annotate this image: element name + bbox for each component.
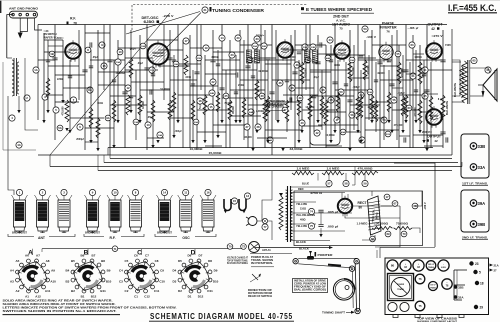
svg-text:C12: C12 xyxy=(144,295,150,299)
svg-text:59: 59 xyxy=(363,182,367,186)
coil L11 xyxy=(180,200,192,227)
svg-text:3300Ω: 3300Ω xyxy=(211,56,218,59)
wire black arrow xyxy=(255,247,330,249)
svg-text:6J8G: 6J8G xyxy=(441,267,446,269)
svg-text:=270 V: =270 V xyxy=(432,34,443,38)
svg-text:31: 31 xyxy=(295,63,299,67)
svg-text:70,000: 70,000 xyxy=(224,102,232,105)
ground arrows main xyxy=(42,120,45,123)
svg-text:27: 27 xyxy=(494,269,498,273)
line cord wires xyxy=(262,171,272,214)
shield line xyxy=(2,62,4,150)
chassis tube 6j8g xyxy=(438,260,449,271)
svg-text:D6: D6 xyxy=(188,253,192,257)
svg-text:BROADCAST: BROADCAST xyxy=(85,232,101,235)
svg-text:AVC=: AVC= xyxy=(56,36,64,40)
wire bus to IF cans xyxy=(461,162,463,167)
svg-text:12: 12 xyxy=(126,86,130,90)
svg-text:.005 μf: .005 μf xyxy=(327,210,338,214)
svg-text:.05μf: .05μf xyxy=(92,56,98,59)
wire lower long bus xyxy=(108,147,433,149)
tuning gang diagonal 1 xyxy=(50,13,170,155)
svg-text:51,000Ω: 51,000Ω xyxy=(160,88,169,91)
power plug note xyxy=(249,242,260,253)
svg-text:11: 11 xyxy=(184,191,187,195)
pulley right second xyxy=(349,266,354,271)
svg-text:470,000: 470,000 xyxy=(401,68,404,78)
svg-text:13: 13 xyxy=(146,123,150,127)
svg-text:A5: A5 xyxy=(15,259,19,263)
svg-text:IN POSITION.: IN POSITION. xyxy=(251,262,273,265)
chassis 2nd if trans xyxy=(426,261,436,271)
cord wound segment xyxy=(328,265,341,266)
capacitor bank 2 xyxy=(46,59,50,61)
svg-text:POINTER: POINTER xyxy=(318,253,334,257)
svg-text:33B: 33B xyxy=(478,144,486,149)
chassis tube 75 xyxy=(415,301,425,311)
svg-text:D4: D4 xyxy=(172,269,176,273)
resistor R59 470000 xyxy=(352,171,378,175)
svg-text:μf: μf xyxy=(416,26,419,30)
svg-text:13: 13 xyxy=(246,194,250,198)
svg-text:740V: 740V xyxy=(445,43,451,47)
svg-text:25: 25 xyxy=(224,94,228,98)
svg-text:23: 23 xyxy=(230,53,234,57)
tuning drum xyxy=(333,279,354,300)
svg-text:R.F.: R.F. xyxy=(109,236,115,240)
svg-text:14: 14 xyxy=(220,36,224,40)
power transformer T1 xyxy=(287,186,289,242)
svg-text:A11: A11 xyxy=(45,289,51,293)
svg-text:1A: 1A xyxy=(34,68,38,72)
svg-text:76: 76 xyxy=(386,30,390,34)
svg-text:16: 16 xyxy=(206,191,210,195)
cap 75 .005uf xyxy=(308,223,314,229)
resistor row 2 xyxy=(372,226,392,229)
svg-text:78: 78 xyxy=(73,22,77,26)
svg-text:B7: B7 xyxy=(92,253,96,257)
wire horizontal links 2 xyxy=(44,51,70,53)
node 58 xyxy=(343,180,349,186)
svg-text:6J8G: 6J8G xyxy=(144,20,155,24)
svg-text:80: 80 xyxy=(391,264,395,268)
node 70b xyxy=(401,231,407,237)
svg-text:YELLOW: YELLOW xyxy=(296,202,308,206)
node 64 xyxy=(485,67,491,73)
resistor bank 2 xyxy=(46,78,50,98)
svg-text:32A: 32A xyxy=(458,296,464,300)
svg-text:30: 30 xyxy=(260,94,264,98)
part circles 2 xyxy=(49,51,55,57)
wire horizontal links xyxy=(44,39,63,41)
svg-text:470,000: 470,000 xyxy=(394,124,403,127)
svg-text:B3: B3 xyxy=(66,280,70,284)
svg-text:20A: 20A xyxy=(194,121,198,124)
svg-text:10: 10 xyxy=(118,50,122,54)
coil L8 xyxy=(130,200,142,227)
svg-text:12A: 12A xyxy=(141,45,145,48)
svg-text:28: 28 xyxy=(256,125,260,129)
svg-text:10A: 10A xyxy=(116,61,120,64)
wire ant feed xyxy=(7,57,12,59)
tube V6 output 42 xyxy=(427,44,440,57)
svg-text:SCHEMATIC DIAGRAM MODEL 40-755: SCHEMATIC DIAGRAM MODEL 40-755 xyxy=(150,312,293,321)
svg-text:15: 15 xyxy=(233,199,237,203)
coil L16 xyxy=(202,200,214,227)
svg-text:INSTALLATION OF DRIVE: INSTALLATION OF DRIVE xyxy=(294,280,326,283)
svg-text:75,000Ω: 75,000Ω xyxy=(396,223,408,226)
svg-text:39B: 39B xyxy=(478,222,486,227)
wire top bus drop left xyxy=(37,25,39,121)
svg-text:C9: C9 xyxy=(160,268,164,272)
pulley left xyxy=(293,259,298,264)
svg-text:YELLOW: YELLOW xyxy=(296,224,308,228)
svg-text:490Ω: 490Ω xyxy=(334,64,340,67)
svg-text:R.F.: R.F. xyxy=(70,17,76,21)
svg-text:SWITCHES SHOWN IN POSITION No.: SWITCHES SHOWN IN POSITION No.1 BROADCAS… xyxy=(3,309,117,313)
svg-text:33,000Ω: 33,000Ω xyxy=(290,148,303,151)
node 67 xyxy=(392,201,398,207)
svg-text:A10: A10 xyxy=(50,279,56,283)
svg-text:44A: 44A xyxy=(326,57,330,60)
wire field top xyxy=(371,191,373,196)
wire bus B1 xyxy=(110,158,452,160)
svg-text:.09μf: .09μf xyxy=(137,62,143,65)
svg-text:TUNING CONDENSER: TUNING CONDENSER xyxy=(212,8,265,13)
svg-text:10: 10 xyxy=(113,191,117,195)
svg-text:POWER: POWER xyxy=(397,284,405,286)
svg-text:C1: C1 xyxy=(134,295,138,299)
svg-text:5A: 5A xyxy=(58,126,62,130)
svg-text:57A: 57A xyxy=(386,133,390,136)
svg-text:ANT: ANT xyxy=(38,236,46,240)
svg-text:4/8Ω: 4/8Ω xyxy=(300,219,305,222)
svg-text:55: 55 xyxy=(396,52,400,56)
wire caps drop xyxy=(320,213,322,224)
speaker wires xyxy=(470,68,490,73)
dot 32A xyxy=(454,295,458,299)
wire chassis link xyxy=(380,247,435,249)
svg-text:A8: A8 xyxy=(46,259,50,263)
svg-text:63: 63 xyxy=(410,43,414,47)
padder coil 15 xyxy=(224,199,231,211)
svg-text:A2: A2 xyxy=(16,289,20,293)
dot 32B xyxy=(454,285,458,289)
svg-text:75: 75 xyxy=(339,27,343,31)
wire wafer link xyxy=(42,248,243,250)
rect wires xyxy=(341,193,343,200)
drive cord top xyxy=(298,257,356,259)
tube V7 output 42 lower xyxy=(427,110,440,123)
coil L2 xyxy=(37,200,49,227)
svg-text:30A: 30A xyxy=(303,46,307,49)
legend underline xyxy=(3,314,121,316)
svg-text:3,000Ω: 3,000Ω xyxy=(256,110,264,113)
coil L3 xyxy=(58,200,70,227)
svg-text:150,000Ω: 150,000Ω xyxy=(374,223,388,226)
svg-text:10,000: 10,000 xyxy=(142,101,145,109)
svg-text:21A: 21A xyxy=(494,264,499,268)
svg-text:B11: B11 xyxy=(100,289,106,293)
svg-text:23: 23 xyxy=(475,262,479,266)
svg-text:.015μf: .015μf xyxy=(398,92,405,95)
svg-text:77: 77 xyxy=(263,225,267,229)
svg-text:33,000: 33,000 xyxy=(244,136,252,139)
svg-text:10,000Ω: 10,000Ω xyxy=(325,134,334,137)
svg-text:99,000: 99,000 xyxy=(232,106,235,114)
svg-text:.004μf: .004μf xyxy=(175,130,182,133)
wire top bus xyxy=(38,24,447,26)
tube V2 DET-OSC 6J8G xyxy=(149,45,168,64)
svg-text:36: 36 xyxy=(278,81,282,85)
node 21 tuning condenser xyxy=(202,7,208,13)
speaker cone xyxy=(483,69,497,101)
wire bus B2 xyxy=(104,162,458,164)
svg-text:B10: B10 xyxy=(106,279,112,283)
svg-text:4A: 4A xyxy=(17,143,21,147)
svg-text:250Ω: 250Ω xyxy=(238,84,244,87)
svg-text:BLK-WHITE: BLK-WHITE xyxy=(454,83,457,97)
bracket OSC xyxy=(155,234,177,237)
svg-text:60: 60 xyxy=(407,106,411,110)
svg-text:C8: C8 xyxy=(155,259,159,263)
svg-text:37: 37 xyxy=(283,108,287,112)
svg-text:BROADCAST: BROADCAST xyxy=(12,232,28,235)
field coil xyxy=(368,196,382,235)
resistor R58 1.0 MEG xyxy=(322,171,344,175)
svg-text:4750 Ω: 4750 Ω xyxy=(310,191,322,195)
resistor R57 1.0 MEG xyxy=(292,171,314,175)
svg-text:26B: 26B xyxy=(262,46,266,48)
svg-text:470,000: 470,000 xyxy=(414,107,417,117)
svg-text:1ST I.F: 1ST I.F xyxy=(430,285,435,287)
svg-text:74: 74 xyxy=(310,210,314,214)
right low wires xyxy=(375,206,400,247)
svg-text:1ST I.F. TRANS.: 1ST I.F. TRANS. xyxy=(462,182,488,186)
wire phono lead xyxy=(35,18,42,30)
rect tube circle RECT 80 xyxy=(339,200,351,212)
svg-text:B6: B6 xyxy=(81,253,85,257)
capacitor bank h xyxy=(89,42,91,47)
chassis feet xyxy=(393,315,398,318)
svg-text:TOP OF POWER TRANS.: TOP OF POWER TRANS. xyxy=(227,259,248,262)
svg-text:5: 5 xyxy=(479,271,481,275)
chassis socket a xyxy=(388,302,397,311)
svg-text:30B: 30B xyxy=(311,47,315,49)
svg-text:C4: C4 xyxy=(119,269,123,273)
ground arrows 2 xyxy=(46,110,49,113)
svg-text:D7: D7 xyxy=(199,253,203,257)
svg-text:17: 17 xyxy=(385,195,389,199)
IF transformer 1 xyxy=(247,50,252,63)
output transformer T2 xyxy=(467,60,469,104)
chassis tube 76 xyxy=(415,274,425,284)
svg-text:51: 51 xyxy=(350,113,354,117)
svg-text:18A: 18A xyxy=(174,63,178,66)
svg-text:C10: C10 xyxy=(159,279,165,283)
chassis box xyxy=(385,258,489,315)
pulley bottom xyxy=(355,308,360,313)
svg-text:D2: D2 xyxy=(178,289,182,293)
svg-text:33: 33 xyxy=(255,37,259,41)
svg-text:B4: B4 xyxy=(65,269,69,273)
svg-text:470,000Ω: 470,000Ω xyxy=(358,167,374,171)
svg-text:A9: A9 xyxy=(51,268,55,272)
svg-text:A4: A4 xyxy=(10,269,14,273)
svg-text:A7: A7 xyxy=(36,253,40,257)
svg-text:C5: C5 xyxy=(124,259,128,263)
svg-text:58: 58 xyxy=(344,182,348,186)
node 17b xyxy=(384,194,390,200)
svg-text:1.0 MEG: 1.0 MEG xyxy=(297,167,310,171)
svg-text:TOP VIEW OF CHASSIS: TOP VIEW OF CHASSIS xyxy=(417,318,457,321)
svg-text:DIAL (BARE CORDS): DIAL (BARE CORDS) xyxy=(294,288,326,291)
svg-text:56: 56 xyxy=(392,98,396,102)
node 65 xyxy=(471,57,477,63)
arrow 27 xyxy=(490,269,494,272)
svg-text:66: 66 xyxy=(371,237,375,241)
svg-text:2000μf: 2000μf xyxy=(76,138,84,141)
wire bus B4 xyxy=(98,170,452,172)
svg-text:22: 22 xyxy=(211,80,215,84)
svg-text:B5: B5 xyxy=(71,259,75,263)
svg-text:32,000: 32,000 xyxy=(377,72,385,75)
svg-text:44: 44 xyxy=(328,38,332,42)
tube V1 RF 78 xyxy=(66,44,79,57)
IF can 2 (39A 39B) xyxy=(461,190,489,232)
svg-text:70: 70 xyxy=(228,245,232,249)
svg-text:13A: 13A xyxy=(134,121,138,124)
IF can 1 (33B 33A) xyxy=(461,134,489,178)
wire antenna lead xyxy=(7,15,13,58)
chassis 1st if xyxy=(429,282,438,291)
svg-text:2ND I.F. TRANS.: 2ND I.F. TRANS. xyxy=(462,236,488,240)
svg-text:D11: D11 xyxy=(207,289,213,293)
svg-text:D3: D3 xyxy=(173,280,177,284)
svg-text:OF CHASSIS.: OF CHASSIS. xyxy=(267,106,286,109)
svg-text:1.0 MEG: 1.0 MEG xyxy=(327,167,340,171)
node 71 xyxy=(112,246,118,252)
IF transformer 2 xyxy=(305,50,310,63)
svg-text:15,000Ω: 15,000Ω xyxy=(209,152,222,155)
node 68 xyxy=(412,203,418,209)
small switch sketch xyxy=(252,274,258,280)
svg-text:51,000: 51,000 xyxy=(352,67,355,75)
svg-text:C11: C11 xyxy=(154,289,160,293)
svg-text:69: 69 xyxy=(386,232,390,236)
chassis tube 42b xyxy=(413,260,424,271)
svg-text:29: 29 xyxy=(480,306,484,310)
wire right edge xyxy=(451,29,453,155)
coil L10 xyxy=(109,200,121,227)
svg-text:C7: C7 xyxy=(145,253,149,257)
bracket RF xyxy=(84,234,104,237)
svg-text:42: 42 xyxy=(315,131,319,135)
svg-text:47: 47 xyxy=(335,118,339,122)
wire b+ loop xyxy=(394,163,435,247)
node 66 xyxy=(370,236,376,242)
dot 29 xyxy=(474,305,478,309)
svg-text:B9: B9 xyxy=(107,268,111,272)
svg-text:39A: 39A xyxy=(478,201,486,206)
svg-text:OSC: OSC xyxy=(182,236,190,240)
wire vertical grid xyxy=(43,33,45,120)
svg-text:53: 53 xyxy=(363,27,367,31)
svg-text:-.06: -.06 xyxy=(408,26,416,30)
svg-text:C2: C2 xyxy=(125,289,129,293)
pilot lamp 77 xyxy=(262,224,268,230)
svg-text:42: 42 xyxy=(431,27,435,31)
svg-text:8 μf: 8 μf xyxy=(438,98,442,101)
resistor bank main xyxy=(65,100,69,122)
svg-text:53A: 53A xyxy=(368,91,372,94)
svg-text:CONNECT TO PHONO: CONNECT TO PHONO xyxy=(267,101,286,103)
svg-text:33A: 33A xyxy=(478,165,486,170)
svg-text:A6: A6 xyxy=(25,253,29,257)
svg-text:75: 75 xyxy=(310,224,314,228)
svg-text:49A: 49A xyxy=(341,131,345,134)
svg-text:470,000: 470,000 xyxy=(62,106,65,116)
dot 5 xyxy=(473,270,477,274)
svg-text:65: 65 xyxy=(472,59,476,63)
svg-text:BLACK: BLACK xyxy=(299,247,309,251)
pulley right top xyxy=(354,259,359,264)
svg-text:18: 18 xyxy=(198,99,202,103)
tuning gang diagonal 2 xyxy=(126,12,200,35)
svg-text:26A: 26A xyxy=(253,45,257,48)
wire vertical grid 2 xyxy=(47,40,49,110)
vertical cords xyxy=(355,264,356,312)
tube V5 phase inv 76 xyxy=(380,46,392,58)
power unit box xyxy=(294,191,423,246)
chassis tube 42a xyxy=(400,260,411,271)
svg-text:70: 70 xyxy=(402,232,406,236)
fuse resistor xyxy=(279,196,283,230)
svg-text:C6: C6 xyxy=(134,253,138,257)
svg-text:RED: RED xyxy=(298,187,304,191)
svg-text:TRANS: TRANS xyxy=(428,266,435,269)
svg-text:39: 39 xyxy=(298,96,302,100)
svg-text:BLK-WHITE: BLK-WHITE xyxy=(446,101,449,115)
label E TUBES WHERE SPECIFIED xyxy=(301,7,304,10)
svg-text:10,000Ω: 10,000Ω xyxy=(115,72,124,75)
svg-text:2ND I.F: 2ND I.F xyxy=(428,264,434,266)
svg-text:IN 115/230 VOLT MODEL: IN 115/230 VOLT MODEL xyxy=(227,263,248,265)
node 70 xyxy=(227,244,233,250)
svg-text:15: 15 xyxy=(209,105,213,109)
coil L14 xyxy=(159,200,171,227)
svg-text:VOLTAGE CHANGE AT: VOLTAGE CHANGE AT xyxy=(227,257,249,260)
svg-text:32B: 32B xyxy=(458,286,464,290)
svg-text:D9: D9 xyxy=(214,268,218,272)
svg-text:D8: D8 xyxy=(208,259,212,263)
svg-text:.05μf: .05μf xyxy=(147,116,153,119)
svg-text:D10: D10 xyxy=(213,279,219,283)
svg-text:50: 50 xyxy=(339,90,343,94)
svg-text:-226 V: -226 V xyxy=(163,14,174,18)
svg-text:9A: 9A xyxy=(106,116,110,120)
tuning gang diagonal 3 xyxy=(166,13,201,49)
pointer xyxy=(307,256,314,260)
wire ground bus xyxy=(38,154,452,156)
svg-text:50A: 50A xyxy=(350,59,354,62)
svg-text:.0015: .0015 xyxy=(185,76,192,79)
terminal strip xyxy=(9,11,37,18)
svg-text:D12: D12 xyxy=(198,295,204,299)
chassis tube 80 xyxy=(387,260,398,271)
svg-text:BROADCAST: BROADCAST xyxy=(157,232,173,235)
wire gnd leads xyxy=(19,18,21,32)
